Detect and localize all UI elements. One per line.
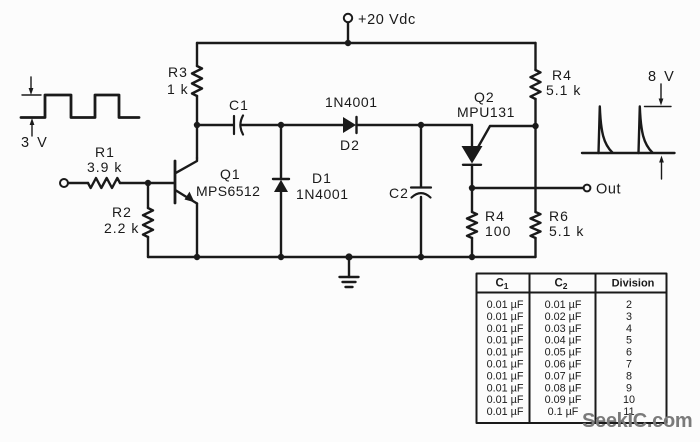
svg-text:0.04 µF: 0.04 µF <box>545 335 582 347</box>
transistor Q1 <box>175 158 197 204</box>
svg-text:0.01 µF: 0.01 µF <box>487 335 524 347</box>
label Q2 MPU131 <box>457 89 515 120</box>
svg-text:5: 5 <box>626 335 632 347</box>
svg-text:R6: R6 <box>549 208 569 224</box>
node base junction <box>145 180 151 186</box>
resistor R1 <box>88 178 120 188</box>
svg-text:1N4001: 1N4001 <box>325 94 378 110</box>
node C2/rail <box>418 254 424 260</box>
table C1 C2 Division <box>477 274 667 424</box>
svg-text:0.07 µF: 0.07 µF <box>545 370 582 382</box>
resistor R2 <box>143 183 153 257</box>
svg-text:C2: C2 <box>389 185 409 201</box>
svg-text:C1: C1 <box>229 97 249 113</box>
wire R1 to base node <box>120 182 148 184</box>
svg-text:0.08 µF: 0.08 µF <box>545 382 582 394</box>
transistor Q2 (PUT) <box>462 126 537 188</box>
output terminal Out <box>584 185 591 192</box>
node Q2 cathode <box>469 185 475 191</box>
node R4/rail <box>469 254 475 260</box>
svg-text:5.1 k: 5.1 k <box>546 82 581 98</box>
resistor R6 <box>531 212 541 257</box>
svg-text:R2: R2 <box>112 204 132 220</box>
table rows <box>487 299 635 418</box>
diode D1 <box>273 125 289 257</box>
svg-text:6: 6 <box>626 347 632 359</box>
svg-text:0.01 µF: 0.01 µF <box>487 311 524 323</box>
wire top supply rail <box>197 42 536 44</box>
svg-text:0.1 µF: 0.1 µF <box>548 406 579 418</box>
svg-text:0.05 µF: 0.05 µF <box>545 347 582 359</box>
svg-text:8 V: 8 V <box>648 69 676 85</box>
svg-text:Division: Division <box>612 278 655 290</box>
svg-text:0.01 µF: 0.01 µF <box>545 299 582 311</box>
svg-text:SeekIC.com: SeekIC.com <box>582 410 692 432</box>
svg-text:2: 2 <box>626 299 632 311</box>
wire input to R1 <box>68 182 88 184</box>
svg-text:0.03 µF: 0.03 µF <box>545 323 582 335</box>
wire C1 to D1 node <box>241 124 282 126</box>
wire node to D2 <box>281 124 344 126</box>
label R4 5.1 k <box>546 67 581 98</box>
svg-text:Out: Out <box>596 182 621 198</box>
svg-text:0.06 µF: 0.06 µF <box>545 359 582 371</box>
svg-text:1N4001: 1N4001 <box>296 186 349 202</box>
node emitter/rail <box>194 254 200 260</box>
svg-text:0.01 µF: 0.01 µF <box>487 394 524 406</box>
svg-text:0.01 µF: 0.01 µF <box>487 382 524 394</box>
svg-text:R3: R3 <box>168 64 188 80</box>
svg-text:Q2: Q2 <box>474 89 495 105</box>
svg-text:R4: R4 <box>552 67 572 83</box>
svg-text:+20 Vdc: +20 Vdc <box>358 12 416 28</box>
node D1 top <box>278 122 284 128</box>
svg-text:8: 8 <box>626 370 632 382</box>
svg-text:100: 100 <box>485 223 511 239</box>
svg-text:Q1: Q1 <box>220 166 241 182</box>
node Q2 gate junction <box>532 123 538 129</box>
capacitor C2 <box>411 125 431 257</box>
svg-text:0.01 µF: 0.01 µF <box>487 370 524 382</box>
svg-text:0.01 µF: 0.01 µF <box>487 347 524 359</box>
input terminal <box>60 179 68 187</box>
svg-text:3 V: 3 V <box>21 135 49 151</box>
svg-text:0.02 µF: 0.02 µF <box>545 311 582 323</box>
svg-text:7: 7 <box>626 359 632 371</box>
output waveform 8 V spikes <box>582 84 675 179</box>
wire Q1 collector up <box>196 125 198 158</box>
resistor R4 100 <box>467 188 477 257</box>
svg-text:0.01 µF: 0.01 µF <box>487 299 524 311</box>
svg-text:5.1 k: 5.1 k <box>549 223 584 239</box>
svg-text:1 k: 1 k <box>167 81 189 97</box>
svg-text:10: 10 <box>623 394 635 406</box>
svg-text:D1: D1 <box>312 170 332 186</box>
svg-text:0.01 µF: 0.01 µF <box>487 406 524 418</box>
svg-text:3: 3 <box>626 311 632 323</box>
resistor R3 <box>192 43 202 125</box>
svg-text:3.9 k: 3.9 k <box>87 159 122 175</box>
supply terminal +20 Vdc <box>344 14 352 46</box>
table headers <box>495 278 654 292</box>
wire to output <box>472 187 584 189</box>
label R3 1 k <box>167 64 189 97</box>
wire node to C1 <box>197 124 233 126</box>
svg-text:MPU131: MPU131 <box>457 104 515 120</box>
wire C2 node to Q2 anode <box>421 125 472 146</box>
ground <box>340 253 359 287</box>
svg-text:2.2 k: 2.2 k <box>104 220 139 236</box>
diode D2 <box>343 117 357 133</box>
resistor R4 5.1 k <box>531 43 541 126</box>
label Q1 MPS6512 <box>196 166 260 199</box>
label R2 2.2 k <box>104 204 139 236</box>
wire ground rail <box>148 256 536 258</box>
input waveform 3 V square wave <box>21 77 139 136</box>
label R4 100 <box>485 208 511 239</box>
svg-text:0.01 µF: 0.01 µF <box>487 323 524 335</box>
wire Q1 emitter to ground rail <box>196 204 198 258</box>
svg-text:4: 4 <box>626 323 632 335</box>
wire node to Q1 base <box>148 182 174 184</box>
label R6 5.1 k <box>549 208 584 239</box>
svg-text:MPS6512: MPS6512 <box>196 183 260 199</box>
svg-text:9: 9 <box>626 382 632 394</box>
label R1 3.9 k <box>87 144 122 175</box>
svg-text:0.01 µF: 0.01 µF <box>487 359 524 371</box>
wire D2 to C2 node <box>357 124 422 126</box>
svg-text:0.09 µF: 0.09 µF <box>545 394 582 406</box>
svg-text:D2: D2 <box>340 137 360 153</box>
svg-text:R4: R4 <box>485 208 505 224</box>
capacitor C1 <box>234 116 243 135</box>
node Q1 collector / C1 <box>194 122 200 128</box>
svg-text:R1: R1 <box>95 144 115 160</box>
wire R6 top <box>534 126 536 212</box>
node C2 top <box>418 122 424 128</box>
node D1/rail <box>278 254 284 260</box>
